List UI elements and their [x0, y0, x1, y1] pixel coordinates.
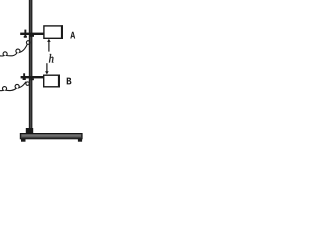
clamp A block on pole [30, 35, 34, 37]
h dimension arrow lower (points down to box B) [46, 63, 48, 71]
stand pole [29, 0, 33, 129]
label B [67, 78, 72, 85]
label A [70, 32, 75, 39]
base left foot [21, 139, 26, 142]
wire to clamp B (coiled cord) [0, 82, 26, 91]
wire to clamp A (coiled cord) [0, 44, 27, 56]
clamp B thumbscrew [23, 73, 25, 79]
h dimension arrow upper (points up to box A) [47, 39, 51, 42]
clamp B crossbar [21, 76, 44, 78]
base collar [26, 128, 33, 134]
box A [44, 26, 62, 38]
base right foot [78, 139, 82, 142]
box B [44, 75, 60, 87]
clamp B block on pole [30, 78, 34, 80]
base bar [20, 134, 82, 139]
clamp A crossbar [20, 33, 43, 35]
label h [49, 54, 54, 63]
clamp A thumbscrew [24, 30, 26, 37]
